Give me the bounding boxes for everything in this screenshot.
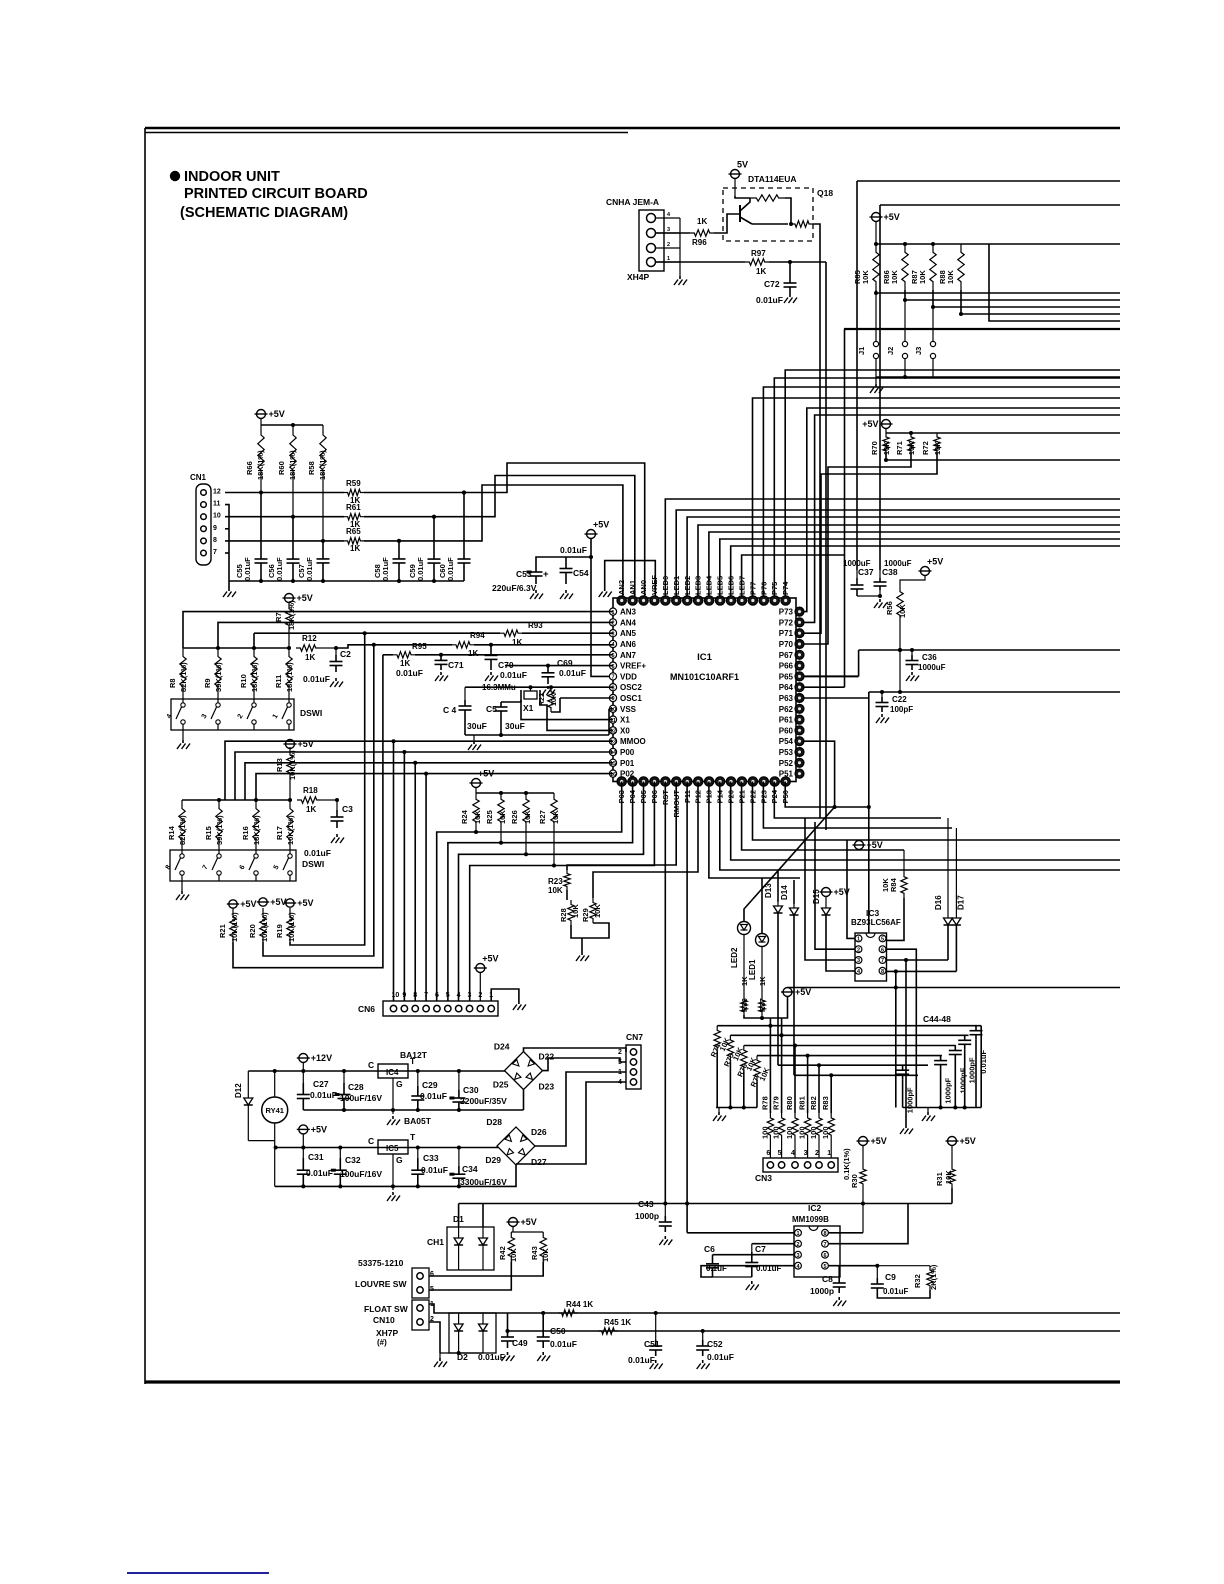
svg-text:R66: R66	[245, 461, 254, 475]
svg-text:OSC2: OSC2	[620, 683, 642, 692]
svg-text:INDOOR UNIT: INDOOR UNIT	[184, 169, 280, 185]
svg-text:10K: 10K	[473, 810, 482, 824]
svg-text:C7: C7	[755, 1244, 766, 1254]
svg-text:13: 13	[610, 739, 616, 745]
wire 12V main line	[248, 1069, 505, 1073]
wire down to C72	[789, 262, 791, 276]
wire P01 net	[245, 763, 613, 800]
svg-text:P73: P73	[779, 608, 794, 617]
power +5V R20	[257, 897, 287, 907]
svg-text:P71: P71	[779, 629, 794, 638]
svg-text:10K: 10K	[523, 810, 532, 824]
wire R71 out	[800, 453, 912, 644]
svg-text:8: 8	[823, 1231, 826, 1237]
IC1 top pin label LED3	[694, 576, 703, 595]
op-amp IC1 body	[613, 598, 796, 782]
svg-text:0.01uF: 0.01uF	[421, 1165, 448, 1175]
svg-text:12: 12	[213, 489, 221, 496]
svg-text:10: 10	[392, 992, 400, 999]
svg-text:R16: R16	[241, 826, 250, 840]
capacitor C29	[411, 1071, 447, 1110]
svg-text:MMOO: MMOO	[620, 737, 646, 746]
svg-text:DSWI: DSWI	[302, 859, 324, 869]
wire CN7 pin2 in	[524, 1048, 627, 1052]
wire R84 top	[903, 850, 905, 872]
svg-text:P65: P65	[779, 672, 794, 681]
IC1 bottom pin label P06	[650, 790, 659, 803]
capacitor C28	[335, 1071, 383, 1110]
block D1 CH1	[427, 1227, 494, 1270]
wire C44 line1	[717, 1025, 981, 1027]
svg-text:R97: R97	[751, 249, 766, 258]
svg-text:R10: R10	[239, 674, 248, 688]
resistor R79	[772, 1033, 785, 1140]
wire AN3 net	[183, 612, 613, 648]
wire CN6 pin8 net	[413, 761, 417, 1001]
wire P65 net	[800, 650, 859, 676]
border frame bottom line	[145, 1380, 1120, 1383]
resistor R83	[821, 1073, 834, 1140]
svg-text:6: 6	[881, 947, 884, 953]
svg-text:R26: R26	[510, 810, 519, 824]
svg-text:R96: R96	[692, 238, 707, 247]
IC1 bottom pin label P23	[759, 790, 768, 803]
ground IC4	[387, 1116, 432, 1126]
IC3 pin 2	[855, 946, 862, 954]
svg-text:IC3: IC3	[866, 908, 880, 918]
IC1 bottom pin label P04	[628, 789, 637, 803]
svg-text:10K(1%): 10K(1%)	[260, 912, 269, 942]
ground under C43	[659, 1236, 672, 1245]
diode D1b	[479, 1227, 488, 1270]
regulator IC5	[368, 1132, 416, 1165]
wire R81 to CN3	[804, 1140, 808, 1158]
wire D2 bottoms	[440, 1330, 483, 1355]
svg-text:P62: P62	[779, 705, 794, 714]
connector CN6 pin 5	[445, 992, 451, 1012]
svg-text:0.01uF: 0.01uF	[396, 668, 423, 678]
svg-text:1000p: 1000p	[810, 1286, 834, 1296]
wire R85 rail	[874, 242, 961, 246]
wire C6 C7 gnd rail	[713, 1276, 752, 1278]
wire IC3 pin8 out	[886, 969, 956, 1107]
connector CN6 pin 7	[423, 992, 429, 1012]
svg-text:100: 100	[821, 1126, 830, 1139]
wire D14 down	[793, 915, 795, 1075]
svg-text:18K(1%): 18K(1%)	[285, 662, 294, 692]
IC1 left pin 13	[609, 738, 616, 746]
svg-text:10K: 10K	[907, 441, 916, 455]
svg-text:LED6: LED6	[727, 576, 736, 595]
svg-text:7: 7	[213, 549, 217, 556]
svg-text:R20: R20	[248, 924, 257, 938]
wire net 987	[788, 987, 1121, 989]
wire LED7 net	[742, 555, 844, 598]
wire 5V main line	[274, 1146, 498, 1150]
label XH7P	[376, 1328, 399, 1347]
diode D1a	[454, 1227, 463, 1270]
IC1 top pin 60	[661, 596, 670, 605]
wire CN6 pin7 net	[424, 772, 428, 1001]
svg-text:G: G	[396, 1079, 403, 1089]
svg-text:10K: 10K	[890, 270, 899, 284]
IC1 top pin label P76	[759, 582, 768, 595]
svg-text:LOUVRE SW: LOUVRE SW	[355, 1279, 407, 1289]
svg-text:0.01uF: 0.01uF	[756, 295, 783, 305]
svg-text:3: 3	[667, 227, 670, 233]
IC3 pin 5	[879, 935, 886, 943]
IC1 bottom pin label P21	[737, 790, 746, 803]
svg-text:X0: X0	[620, 726, 630, 735]
ground under C36	[906, 672, 919, 681]
wire J bottom rail	[876, 375, 1120, 379]
wire Q18 junction	[752, 222, 793, 226]
IC1 top pin 59	[672, 596, 681, 605]
switch DSW2 pole 7	[202, 848, 222, 881]
label D2	[457, 1352, 468, 1362]
svg-text:7: 7	[823, 1242, 826, 1248]
wire bridge2 bottom rail	[275, 1165, 516, 1188]
ground under CNHA	[674, 276, 687, 285]
wire IC5 gnd	[391, 1154, 395, 1190]
svg-text:10K: 10K	[571, 904, 580, 918]
IC1 left pin 10	[609, 705, 616, 713]
power +5V IC5	[297, 1124, 327, 1147]
svg-text:R19: R19	[275, 924, 284, 938]
IC1 pin label VREF+	[620, 662, 646, 671]
wire R42R43 rail	[511, 1231, 543, 1233]
IC2 pin 2	[795, 1240, 802, 1248]
LED LED1	[756, 934, 769, 947]
wire row1 bottom rail	[303, 1108, 523, 1112]
svg-text:+5V: +5V	[927, 557, 943, 567]
resistor R77	[749, 1056, 772, 1089]
svg-text:D12: D12	[234, 1083, 243, 1098]
svg-text:P64: P64	[779, 683, 794, 692]
IC2 pin 6	[822, 1251, 829, 1259]
svg-text:R71: R71	[895, 441, 904, 455]
svg-text:C32: C32	[345, 1155, 361, 1165]
wire C2 to AN6	[336, 645, 613, 648]
capacitor C32	[331, 1148, 383, 1187]
svg-text:6: 6	[430, 1271, 434, 1278]
resistor R13	[275, 747, 297, 780]
wire C53 top	[536, 555, 593, 564]
IC1 top pin label LED7	[737, 576, 746, 595]
svg-text:0.01uF: 0.01uF	[979, 1050, 988, 1074]
wire LED3 net	[698, 525, 1120, 598]
svg-text:G: G	[396, 1155, 403, 1165]
svg-text:10: 10	[610, 707, 616, 713]
svg-text:R23: R23	[548, 877, 563, 886]
svg-text:(#): (#)	[377, 1338, 387, 1347]
svg-text:2: 2	[611, 621, 614, 627]
connector CN6 pin 9	[401, 992, 407, 1012]
svg-text:5V: 5V	[737, 160, 748, 170]
svg-text:0.01uF: 0.01uF	[559, 668, 586, 678]
wire LED1 net	[676, 510, 1120, 598]
svg-text:D25: D25	[493, 1080, 509, 1090]
svg-text:10K: 10K	[593, 904, 602, 918]
svg-text:R45 1K: R45 1K	[604, 1318, 631, 1327]
capacitor C36	[906, 650, 946, 672]
wire C38 feed	[879, 205, 881, 570]
wire P54 net	[800, 741, 837, 809]
IC1 bottom pin label P22	[748, 790, 757, 803]
svg-text:LED1: LED1	[748, 959, 757, 980]
IC1 top pin label AN2	[617, 580, 626, 595]
ground crystal	[468, 735, 481, 750]
IC3 pin 6	[879, 946, 886, 954]
connector LOUVRE pin6	[417, 1271, 434, 1279]
resistor R84	[881, 872, 907, 898]
IC1 bottom pin label P03	[617, 790, 626, 803]
resistor R80	[785, 1044, 798, 1141]
power +5V R30	[857, 1136, 887, 1146]
wire P12 net	[593, 782, 698, 899]
resistor R65	[344, 527, 364, 553]
wire R26 bottom stub	[525, 828, 527, 854]
wire CN1 pin7 stub	[225, 552, 229, 554]
IC1 left pin 14	[609, 748, 617, 756]
resistor R94	[452, 631, 485, 658]
svg-text:10K: 10K	[509, 1248, 518, 1262]
svg-text:C44-48: C44-48	[923, 1014, 951, 1024]
wire RY41 top	[274, 1071, 276, 1097]
ground under C52	[697, 1360, 710, 1369]
capacitor C43	[635, 1199, 672, 1232]
svg-text:C52: C52	[707, 1339, 723, 1349]
wire R79 to CN3	[778, 1140, 782, 1158]
IC1 top pin label LED6	[727, 576, 736, 595]
svg-text:18K(1%): 18K(1%)	[287, 600, 296, 630]
svg-text:IC4: IC4	[386, 1068, 399, 1077]
svg-text:100: 100	[809, 1126, 818, 1139]
IC1 pin label P71	[779, 629, 794, 638]
wire C5 top	[501, 701, 521, 703]
wire bridge1 bottom	[523, 1090, 525, 1110]
svg-text:1K: 1K	[306, 805, 316, 814]
IC1 top pin label P74	[781, 581, 790, 595]
IC1 right pin 41	[795, 683, 804, 692]
resistor R97	[745, 249, 769, 276]
svg-text:C27: C27	[313, 1079, 329, 1089]
svg-text:0.01uF: 0.01uF	[756, 1264, 781, 1273]
svg-text:R95: R95	[412, 642, 427, 651]
svg-text:+5V: +5V	[270, 897, 286, 907]
wire CN7 pin1 in	[535, 1072, 626, 1146]
wire C44 line2	[730, 1034, 968, 1036]
connector CN10 body	[412, 1300, 429, 1330]
capacitor C47	[958, 1035, 977, 1107]
IC2 pin 1	[795, 1229, 802, 1237]
capacitor C69	[542, 658, 586, 684]
svg-text:R83: R83	[821, 1096, 830, 1110]
IC1 bottom pin label P24	[770, 789, 779, 803]
bridge rectifier D24 D22 D25 D23	[493, 1042, 554, 1092]
resistor R43	[530, 1232, 550, 1262]
ground DSW1	[177, 740, 190, 749]
wire R74-77 gnd rail	[716, 1106, 757, 1110]
svg-text:C43: C43	[638, 1199, 654, 1209]
svg-text:10K: 10K	[551, 693, 558, 706]
resistor R36	[740, 935, 749, 1016]
svg-text:R60: R60	[277, 461, 286, 475]
svg-text:39K(1%): 39K(1%)	[214, 662, 223, 692]
svg-text:10K(1%): 10K(1%)	[286, 815, 295, 845]
connector CN3 pin 5	[778, 1162, 784, 1168]
wire P77 net	[753, 398, 1121, 598]
svg-text:CN6: CN6	[358, 1004, 375, 1014]
IC1 pin label OSC2	[620, 683, 642, 692]
bridge rectifier D28 D26 D29 D27	[485, 1117, 546, 1167]
svg-text:AN4: AN4	[620, 618, 637, 627]
wire P04 net	[448, 782, 633, 1002]
IC1 pin label P73	[779, 608, 794, 617]
wire R66 down	[259, 480, 263, 495]
IC3 pin 4	[855, 967, 862, 975]
svg-text:100: 100	[785, 1126, 794, 1139]
connector CN1 pin 9	[201, 525, 217, 532]
IC1 pin label VSS	[620, 705, 637, 714]
ground under C7	[746, 1281, 759, 1290]
svg-text:X1: X1	[620, 716, 630, 725]
svg-text:100: 100	[772, 1126, 781, 1139]
IC1 pin label P53	[779, 748, 794, 757]
svg-text:14: 14	[610, 750, 617, 756]
resistor R22	[539, 685, 558, 712]
wire P20 net	[731, 782, 1120, 861]
IC1 bottom pin 23	[683, 777, 692, 786]
resistor R31	[935, 1146, 955, 1188]
label DTA114EUA	[748, 174, 797, 184]
wire IC3 pin1 in	[847, 840, 855, 938]
resistor R25	[485, 793, 507, 828]
svg-text:100: 100	[760, 1126, 769, 1139]
svg-text:82K(1%): 82K(1%)	[178, 815, 187, 845]
ground R74 rail	[713, 1108, 726, 1122]
IC1 top pin label LED5	[716, 576, 725, 595]
svg-text:LED2: LED2	[683, 576, 692, 595]
IC1 pin label P66	[779, 662, 794, 671]
svg-text:+5V: +5V	[297, 593, 313, 603]
svg-text:3: 3	[804, 1150, 808, 1157]
svg-text:R80: R80	[785, 1096, 794, 1110]
resistor R37	[758, 947, 767, 1016]
svg-text:AN3: AN3	[620, 608, 637, 617]
svg-text:0.01uF: 0.01uF	[243, 557, 252, 581]
power +5V CN1	[255, 409, 285, 425]
ground under J1	[870, 377, 883, 393]
crystal X1	[521, 685, 540, 713]
svg-text:C38: C38	[882, 567, 898, 577]
svg-text:1K: 1K	[350, 544, 360, 553]
svg-text:+5V: +5V	[297, 898, 313, 908]
svg-text:4: 4	[791, 1150, 795, 1157]
IC1 pin label P62	[779, 705, 794, 714]
svg-text:P53: P53	[779, 748, 794, 757]
svg-text:10K: 10K	[882, 441, 891, 455]
IC1 top pin label AN0	[639, 580, 648, 595]
IC1 top pin 64	[617, 596, 626, 605]
svg-text:1: 1	[667, 256, 670, 262]
IC1 bottom pin 22	[672, 777, 681, 786]
capacitor C37	[851, 578, 864, 596]
svg-text:18K(1%): 18K(1%)	[252, 815, 261, 845]
svg-text:C29: C29	[422, 1080, 438, 1090]
power +5V R13	[284, 739, 314, 749]
ground under C37	[874, 599, 887, 608]
svg-text:Q18: Q18	[817, 188, 833, 198]
svg-text:+5V: +5V	[593, 520, 609, 530]
svg-text:R43: R43	[530, 1246, 539, 1260]
wire IC4 gnd	[391, 1078, 395, 1114]
power +5V D15	[820, 887, 850, 897]
resistor R66	[245, 425, 265, 480]
svg-text:6: 6	[435, 992, 439, 999]
capacitor C52	[696, 1329, 734, 1362]
IC1 pin label OSC1	[620, 694, 642, 703]
svg-text:0.01uF: 0.01uF	[310, 1090, 337, 1100]
svg-text:C34: C34	[462, 1164, 478, 1174]
svg-text:AN0: AN0	[639, 580, 648, 595]
wire R96 to Q18 base	[714, 214, 740, 233]
svg-text:30uF: 30uF	[467, 721, 487, 731]
connector CNHA pin 1	[647, 256, 681, 267]
resistor R14	[167, 800, 187, 848]
svg-text:R32: R32	[913, 1274, 922, 1288]
capacitor C49	[478, 1313, 528, 1362]
IC1 left pin 7	[609, 673, 616, 681]
svg-text:16: 16	[610, 772, 616, 778]
IC1 bottom pin 30	[759, 777, 768, 786]
svg-text:LED5: LED5	[716, 576, 725, 595]
power +5V CN6 pin2	[474, 954, 499, 1002]
svg-text:R8: R8	[168, 678, 177, 688]
capacitor C60	[438, 491, 471, 582]
transistor Q18 dashed box	[723, 188, 833, 241]
IC1 left pin 6	[609, 662, 616, 670]
wire R23 to R28	[566, 890, 568, 900]
border frame top line inner	[145, 132, 628, 134]
svg-text:0.01uF: 0.01uF	[304, 848, 331, 858]
svg-text:C71: C71	[448, 660, 464, 670]
resistor R18	[297, 786, 321, 814]
wire pin6 net	[429, 1262, 543, 1276]
svg-text:8: 8	[881, 969, 884, 975]
svg-text:C30: C30	[463, 1085, 479, 1095]
svg-text:+5V: +5V	[884, 212, 900, 222]
svg-text:R11: R11	[274, 675, 283, 688]
wire C48 drop	[980, 1026, 982, 1108]
resistor R88	[938, 244, 964, 290]
connector CNHA XH4P body	[639, 210, 664, 271]
wire C43 line	[459, 1188, 952, 1206]
wire R74 bottom	[716, 1052, 718, 1108]
svg-text:R15: R15	[204, 826, 213, 840]
svg-text:DSWI: DSWI	[300, 708, 322, 718]
connector CN6 pin 1	[488, 992, 494, 1012]
wire LED0 net	[665, 499, 1120, 598]
IC1 top pin 56	[704, 596, 713, 605]
svg-text:0.01uF: 0.01uF	[303, 674, 330, 684]
IC1 pin label AN5	[620, 629, 637, 638]
connector CN1 body	[196, 484, 211, 565]
power +5V R24	[470, 769, 495, 788]
IC1 top pin label LED1	[672, 576, 681, 595]
wire R76 bottom	[743, 1072, 745, 1108]
IC2 pin 8	[822, 1229, 829, 1237]
